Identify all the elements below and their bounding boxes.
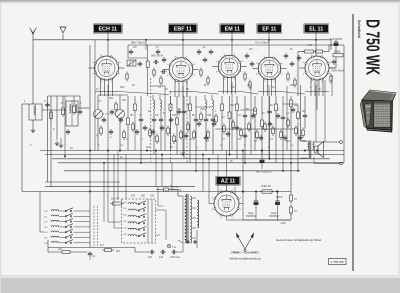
capacitor C23 — [304, 113, 306, 115]
wire — [157, 187, 159, 206]
svg-text:←Mittel–○–Drehricht.→: ←Mittel–○–Drehricht.→ — [230, 250, 260, 254]
resistor R16 — [229, 110, 231, 113]
electrolytic C79 — [277, 199, 279, 202]
svg-text:Schaltbild: Schaltbild — [357, 20, 361, 39]
svg-text:+60V 60mA: +60V 60mA — [331, 69, 345, 73]
svg-text:100: 100 — [308, 44, 313, 47]
wire bus rail 1 — [40, 150, 344, 152]
svg-text:2V: 2V — [238, 114, 241, 117]
extra top band parts — [130, 49, 132, 51]
resistor R3 — [73, 104, 75, 107]
resistor R11 — [170, 102, 172, 105]
coil L9 — [212, 100, 214, 110]
wire long vertical x209 — [208, 159, 210, 204]
thermo fuse — [164, 188, 169, 191]
wire rail -13V — [243, 219, 291, 221]
loudspeaker LS — [315, 142, 324, 158]
wire left vertical 51 — [50, 96, 52, 187]
capacitor C21 — [282, 115, 284, 117]
svg-text:2 750 WK: 2 750 WK — [331, 260, 344, 264]
wire — [62, 96, 64, 106]
resistor R22 — [297, 110, 299, 113]
wire left vertical 90 — [89, 45, 91, 248]
svg-text:8μF 8/10V: 8μF 8/10V — [330, 37, 343, 41]
wire — [22, 103, 29, 105]
wire — [261, 151, 263, 157]
wire — [153, 110, 155, 117]
wire — [205, 123, 207, 151]
wire stem EF11 — [268, 33, 270, 58]
svg-text:-13V: -13V — [280, 221, 286, 225]
wire mid horizontal d — [196, 106, 212, 108]
wire — [127, 96, 129, 116]
wire — [170, 113, 172, 151]
junction — [261, 150, 262, 151]
wire bus rail 5 — [64, 170, 300, 172]
capacitor C16 — [205, 117, 207, 119]
wire long vertical x162 — [161, 155, 163, 187]
wire — [170, 96, 172, 102]
radio photograph — [360, 90, 396, 133]
wire drops to rails — [94, 40, 96, 151]
mains plug pin b — [194, 241, 196, 243]
wire rail left segment — [127, 45, 129, 58]
wire AZ plate top — [217, 187, 219, 195]
antenna coil box L1 — [29, 104, 42, 120]
resistor R74b — [316, 50, 323, 53]
wire — [48, 95, 81, 97]
wire x104 drop — [103, 163, 105, 222]
wire — [290, 96, 292, 98]
wire — [113, 155, 115, 229]
phones terminal TA — [167, 244, 170, 247]
wire left vertical 47 — [47, 96, 49, 182]
svg-text:2M: 2M — [130, 114, 133, 117]
wire AZ anode feed — [217, 155, 219, 187]
wire mid horizontal a — [215, 128, 295, 130]
wire — [78, 107, 90, 109]
wire top rail 98V — [33, 39, 331, 41]
tube label EM 11 — [220, 24, 245, 33]
svg-text:AZ 11: AZ 11 — [221, 178, 235, 184]
wire stem EL11 — [315, 33, 317, 57]
electrolytic C82 — [255, 199, 257, 202]
resistor R1 — [50, 110, 52, 113]
wire — [244, 96, 246, 113]
svg-text:Gezeichnete Schaltstellung: Mi: Gezeichnete Schaltstellung: Mittel — [276, 238, 322, 242]
wire — [290, 163, 292, 193]
resistor R17 — [236, 102, 238, 105]
wire — [205, 110, 207, 117]
mains plug pin a — [187, 241, 189, 243]
wire EL11 anode to OT — [316, 80, 318, 110]
resistor R21 — [290, 98, 292, 101]
capacitor C20 — [269, 109, 271, 111]
svg-text:98V 26mA: 98V 26mA — [131, 41, 145, 45]
wire — [47, 248, 49, 253]
tube label AZ 11 — [216, 176, 240, 185]
earth/mains antenna symbol — [60, 27, 66, 40]
wire bus rail 2 — [45, 154, 344, 156]
wire — [134, 248, 136, 253]
coupling box L2 — [66, 101, 78, 126]
capacitor C1 — [47, 102, 49, 104]
tube AZ 11 (U6) — [212, 189, 242, 219]
wire x118 drop — [117, 151, 119, 200]
wire — [156, 234, 161, 236]
wire — [254, 115, 256, 151]
wire stem ECH11 — [107, 33, 109, 57]
node junctions — [107, 39, 108, 40]
wave switch position indicator — [231, 233, 259, 253]
wire — [147, 45, 149, 59]
tuning gang capacitor CV1 — [94, 104, 103, 124]
choke resistor R80 10k — [260, 191, 263, 193]
tube label EL 11 — [304, 24, 329, 33]
svg-text:2V: 2V — [70, 147, 73, 150]
switch wafer dashed — [93, 206, 95, 246]
svg-text:100: 100 — [172, 114, 177, 117]
wire — [60, 138, 62, 143]
wire — [204, 95, 206, 100]
capacitor C15 — [195, 117, 197, 119]
capacitor C17 — [212, 117, 214, 119]
ground left — [56, 141, 58, 143]
wire bus rail 4 — [58, 162, 344, 164]
svg-text:98V 26mA: 98V 26mA — [151, 54, 163, 58]
capacitor C10b — [161, 71, 163, 73]
wire — [97, 95, 99, 104]
terminal circle bottom — [340, 162, 343, 165]
terminal circle top — [340, 141, 343, 144]
wire long vertical x172 — [171, 163, 173, 190]
wire rail right drop — [330, 40, 332, 50]
tuning gang capacitor CV2 — [116, 104, 125, 124]
wire transformer bottom — [182, 243, 184, 248]
transformer secondary taps — [192, 197, 197, 199]
wire — [56, 96, 58, 140]
tube EM 11 (U3) — [216, 54, 243, 81]
pot P1 hatched — [127, 60, 136, 66]
resistor R74 — [302, 51, 305, 53]
wire mid horizontal e — [240, 109, 255, 111]
resistor R19 — [261, 118, 263, 121]
capacitor C2 — [67, 129, 69, 131]
coil L6 — [160, 100, 162, 110]
extra caps band — [103, 117, 105, 119]
wire — [42, 109, 66, 111]
capacitor C8 — [140, 117, 142, 119]
wire — [221, 113, 223, 151]
wire — [127, 127, 129, 151]
coil L8 — [205, 100, 207, 110]
wire — [242, 151, 244, 192]
tube EF 11 (U4) — [256, 56, 283, 83]
capacitor C7 — [110, 129, 112, 131]
wire — [221, 96, 223, 102]
wire — [156, 189, 164, 191]
wire — [32, 120, 34, 128]
wire — [329, 44, 333, 46]
separator rule — [352, 14, 354, 271]
svg-text:95V: 95V — [230, 104, 235, 107]
svg-text:100: 100 — [131, 195, 136, 198]
svg-text:510: 510 — [150, 195, 155, 198]
gang dashed link — [103, 113, 116, 115]
wire tube drops — [100, 79, 102, 97]
resistor R2 — [62, 106, 64, 109]
svg-text:123: 123 — [148, 256, 153, 259]
svg-text:EM 11: EM 11 — [225, 26, 240, 32]
svg-text:Vm 4,9mA: Vm 4,9mA — [255, 41, 269, 45]
wire x126 drop — [125, 155, 127, 200]
IF transformer T2 screen — [170, 92, 172, 164]
mains transformer T4 — [183, 194, 192, 243]
wire — [153, 123, 155, 155]
capacitor C10 — [153, 61, 155, 63]
svg-text:10kΩ 80: 10kΩ 80 — [261, 184, 271, 188]
tube label EBF 11 — [168, 24, 197, 33]
wire switch top — [39, 192, 41, 233]
svg-text:Wellenschalterstellung: Wellenschalterstellung — [230, 257, 261, 261]
wire long vertical x203 — [202, 155, 204, 192]
wire — [255, 192, 257, 200]
tube label EF 11 — [257, 24, 282, 33]
svg-text:D 750 WK: D 750 WK — [362, 19, 382, 75]
output transformer T3 — [308, 141, 314, 159]
svg-text:EL 11: EL 11 — [309, 26, 323, 32]
wire rail bottom left — [48, 247, 135, 249]
wire AZ stem — [226, 185, 228, 192]
wire rail left b — [45, 186, 195, 188]
svg-text:450/550V: 450/550V — [269, 215, 280, 218]
tube EBF 11 (U2) — [167, 56, 196, 85]
wire — [301, 140, 308, 142]
wire — [152, 95, 154, 100]
svg-text:118: 118 — [116, 250, 120, 253]
wire long vertical x156 — [155, 151, 157, 187]
wire mid horizontal b — [98, 94, 128, 96]
wire — [297, 52, 299, 97]
capacitor C124 — [160, 251, 162, 253]
resistor R75 — [290, 205, 292, 208]
svg-text:117: 117 — [100, 244, 104, 247]
capacitor C11 — [153, 117, 155, 119]
resistor R9 — [147, 59, 149, 62]
wire rail anode supply — [128, 44, 344, 46]
svg-text:0,05: 0,05 — [200, 108, 205, 111]
svg-text:6,3V: 6,3V — [180, 152, 185, 155]
wire mid horizontal c — [150, 85, 165, 87]
wire rail zero — [22, 191, 291, 193]
svg-text:81mA: 81mA — [276, 196, 283, 199]
wire heater segments — [95, 91, 118, 93]
capacitor C12 — [160, 117, 162, 119]
capacitor C77 — [261, 157, 263, 160]
wire — [254, 96, 256, 106]
wire — [298, 51, 305, 53]
wire mid horizontal f — [283, 103, 298, 105]
resistor R20 — [275, 102, 277, 105]
wire speaker terminal bottom — [314, 163, 340, 165]
resistor R79 950 — [333, 54, 343, 57]
wire x65 drop — [64, 96, 66, 156]
component 117 — [102, 249, 105, 251]
resistor R12k — [60, 251, 63, 253]
svg-text:124: 124 — [159, 256, 164, 259]
junction dots — [89, 150, 90, 151]
svg-text:950Ω: 950Ω — [334, 50, 340, 54]
wire — [227, 219, 292, 221]
capacitor C14 — [183, 109, 185, 111]
IF transformer T1 screen — [150, 78, 152, 162]
wire — [329, 67, 336, 69]
svg-text:4μF 450/550V: 4μF 450/550V — [256, 171, 272, 174]
resistor R13 — [189, 102, 191, 105]
resistor R8 — [134, 102, 136, 105]
svg-text:EBF 11: EBF 11 — [174, 26, 192, 32]
wire bus rail 3 — [52, 158, 330, 160]
wire right vertical x344 — [343, 45, 345, 163]
antenna — [30, 28, 37, 41]
svg-text:2V: 2V — [165, 88, 168, 91]
svg-text:119 25k: 119 25k — [111, 198, 120, 201]
svg-text:T.A.: T.A. — [172, 245, 177, 249]
svg-text:300: 300 — [290, 84, 295, 87]
wire stem EBF11 — [182, 33, 184, 59]
svg-text:300: 300 — [207, 114, 212, 117]
wire — [178, 195, 183, 197]
ground mid-left — [60, 143, 62, 145]
capacitor C3 — [79, 109, 81, 111]
wire box to transformer — [156, 209, 167, 211]
resistor R12 — [176, 116, 178, 119]
coil L5 — [153, 100, 155, 110]
capacitor C19 — [244, 113, 246, 115]
resistor R18 — [254, 106, 256, 109]
svg-text:2M: 2M — [133, 46, 136, 49]
second winding column — [197, 200, 199, 228]
resistor R7 — [127, 116, 129, 119]
resistor R119 — [110, 203, 113, 205]
tube label ECH 11 — [93, 24, 122, 33]
wire jog g — [128, 57, 147, 59]
IF screen T2b — [186, 92, 188, 164]
capacitor C125 — [171, 251, 173, 253]
doc number box — [329, 259, 347, 265]
wire — [47, 240, 49, 248]
wire AZ label feed — [226, 151, 228, 178]
coil pack box (dashed) — [122, 199, 156, 243]
svg-text:ECH 11: ECH 11 — [98, 26, 117, 32]
tube ECH 11 (U1) — [92, 54, 121, 83]
capacitor C22 8uF — [335, 40, 337, 43]
svg-text:500: 500 — [141, 195, 146, 198]
wire heater link — [118, 92, 169, 95]
svg-text:EF 11: EF 11 — [262, 26, 276, 32]
wire verticals through coil box — [147, 199, 149, 243]
svg-text:125 Imax: 125 Imax — [170, 256, 181, 259]
svg-text:95V: 95V — [120, 86, 125, 89]
capacitor C123 — [149, 251, 151, 253]
wire left vertical 22 — [21, 104, 23, 192]
wire AZ cathode — [226, 216, 228, 220]
wire feed to coil box — [107, 151, 109, 223]
wire — [97, 124, 99, 151]
svg-text:0,05: 0,05 — [247, 84, 252, 87]
resistor R15 — [221, 102, 223, 105]
ground antenna — [32, 128, 34, 130]
wire stem EM11 — [231, 33, 233, 56]
tube EL 11 (U5) — [303, 54, 332, 83]
resistor R76 — [290, 193, 292, 196]
wire speaker terminal top — [314, 141, 340, 143]
switch bank S1 — [44, 208, 90, 245]
capacitor C_b — [89, 251, 91, 253]
extra components band — [100, 126, 102, 129]
wire rail left a — [45, 181, 120, 183]
wire antenna lead — [32, 40, 34, 104]
svg-text:450/550V: 450/550V — [246, 215, 257, 218]
